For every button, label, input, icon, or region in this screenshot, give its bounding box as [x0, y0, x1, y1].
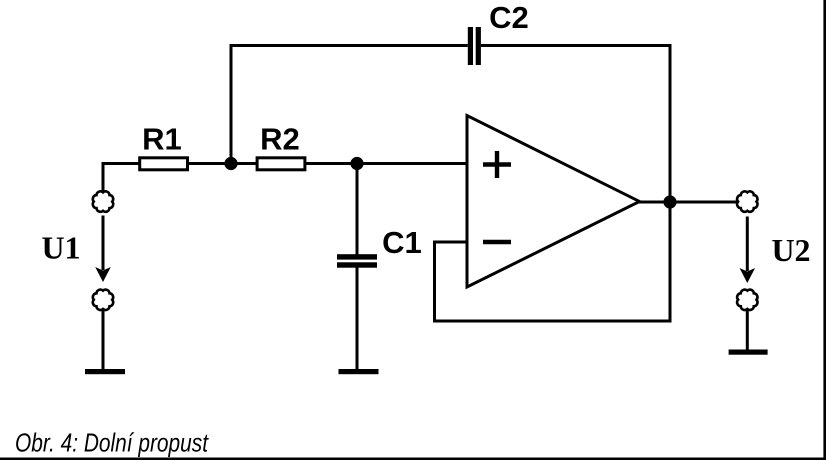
frame bottom border [0, 458, 826, 460]
wire: input drop to U1 top terminal [102, 162, 105, 191]
node C output junction [663, 195, 676, 208]
wire: U2 lower terminal to ground [746, 310, 749, 351]
wire: right feedback drop to output node [669, 44, 672, 202]
svg-text:C1: C1 [382, 225, 422, 260]
terminal: U2 bottom [737, 290, 757, 310]
frame right border [823, 0, 826, 460]
wire: feedback riser at node A [230, 46, 233, 164]
arrow U1 voltage [95, 216, 111, 283]
svg-text:R2: R2 [260, 122, 300, 157]
capacitor C2 [468, 27, 481, 65]
terminal: U1 bottom [93, 290, 113, 310]
ground: C1 branch [339, 369, 379, 374]
terminal: U1 top [93, 191, 113, 211]
svg-text:U2: U2 [771, 232, 810, 268]
svg-text:R1: R1 [142, 122, 182, 157]
wire: top feedback rail left of C2 [230, 44, 468, 47]
wire: C1 branch from node B [356, 164, 359, 255]
wire: main input rail to op-amp + input [103, 162, 467, 165]
capacitor C1 [337, 254, 377, 267]
wire: top feedback rail right of C2 [481, 44, 670, 47]
wire: C1 to ground [356, 268, 359, 372]
wire: output to U2 terminal [639, 201, 738, 204]
svg-text:Obr. 4: Dolní propust: Obr. 4: Dolní propust [15, 428, 209, 458]
node B junction R2/C1 [350, 157, 363, 170]
svg-text:C2: C2 [489, 0, 529, 35]
resistor R1 [140, 158, 188, 170]
wire: feedback loop left drop [433, 241, 436, 322]
wire: feedback loop bottom run [433, 320, 670, 323]
svg-text:U1: U1 [41, 230, 80, 266]
op-amp + input marking [483, 151, 511, 178]
arrow U2 voltage [740, 217, 756, 284]
wire: output node down to loop [669, 202, 672, 323]
ground: output side [729, 350, 768, 355]
terminal: U2 top [737, 191, 757, 211]
op-amp - input marking [483, 240, 511, 245]
resistor R2 [257, 158, 305, 170]
wire: inverting input stub [435, 241, 468, 244]
node A junction R1/R2/C2 [224, 157, 237, 170]
ground: input side [85, 369, 125, 374]
op-amp [467, 116, 640, 288]
wire: U1 lower terminal to ground [102, 308, 105, 371]
